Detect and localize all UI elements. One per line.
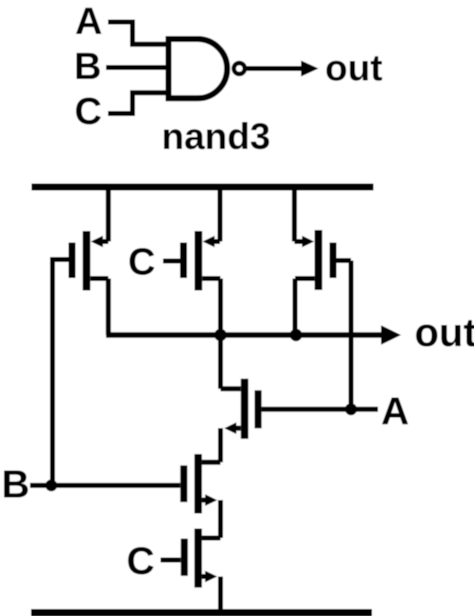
svg-text:C: C (75, 91, 102, 133)
svg-text:B: B (2, 464, 30, 507)
svg-text:A: A (381, 391, 409, 434)
svg-text:out: out (415, 311, 474, 355)
svg-text:nand3: nand3 (162, 116, 271, 157)
svg-text:B: B (74, 46, 101, 88)
svg-text:A: A (75, 1, 102, 43)
svg-text:out: out (325, 48, 383, 89)
svg-text:C: C (127, 540, 155, 583)
svg-text:C: C (128, 242, 155, 284)
